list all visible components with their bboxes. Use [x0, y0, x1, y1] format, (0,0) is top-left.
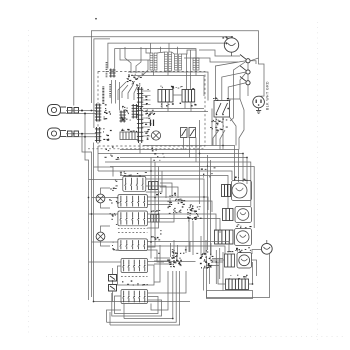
electronic range control ERC dashed enclosure: [98, 72, 205, 147]
transformer T1 secondary winding: [165, 52, 172, 71]
surface element RF: [149, 182, 159, 190]
fuse F1: [68, 108, 79, 114]
wire SW4 to bottom: [147, 242, 190, 253]
surface switch SW2: [118, 195, 147, 208]
wire stack bundle v4: [146, 171, 162, 192]
wire rail to SW2: [92, 197, 118, 199]
wire ERC inner verticals: [111, 80, 113, 104]
wire rail stub: [94, 167, 114, 177]
wire stack bundle v2: [147, 162, 155, 247]
relay K3 contact box: [158, 90, 173, 103]
wire name labels left rail: [106, 62, 112, 97]
wire right bundle down 3: [222, 252, 224, 291]
wire long mid verticals: [207, 155, 209, 250]
terminal junction cluster J2: [0, 0, 1, 1]
wire rail to SW3: [89, 213, 118, 215]
latch motor assembly: [225, 253, 252, 269]
door latch switch contacts: [181, 128, 196, 138]
motor M2 labels: [234, 177, 248, 181]
bottom switch SW5: [121, 259, 148, 273]
wire coil top links: [146, 48, 150, 53]
surface switch SW4: [118, 239, 147, 251]
wire stack v5: [154, 245, 160, 282]
wire mid band 5: [105, 162, 251, 206]
wire DLB drop 1: [215, 117, 217, 146]
door switch S1: [240, 55, 250, 63]
wire bottom run 4: [123, 304, 125, 319]
door switch S2: [240, 66, 250, 74]
wire N top bus: [108, 43, 227, 68]
wire mid band 8: [120, 176, 228, 209]
oven sensor cluster spokes left: [154, 257, 170, 259]
wire coil stub C: [177, 70, 179, 72]
wire latch assembly left: [210, 259, 225, 261]
wire coil to motor area: [184, 58, 238, 62]
wire warming loop: [218, 262, 226, 284]
wire left rail down: [85, 114, 89, 301]
wire TB risers: [160, 183, 172, 198]
motor M2 series element: [222, 185, 231, 197]
switch row left labels: [110, 180, 118, 191]
wire mid band 2: [120, 150, 239, 183]
double line break relay DLB: [214, 101, 230, 118]
wire plug row 2b: [66, 136, 97, 138]
cooling fan motor M2: [232, 181, 252, 201]
wire door switch fanout 2: [222, 72, 246, 100]
wire L1 top bus: [91, 31, 258, 103]
surface switch SW3: [118, 211, 147, 228]
capacitor C1: [151, 120, 154, 127]
power cord terminal L2: [48, 128, 67, 139]
SW5 dashed: [121, 276, 148, 278]
wire right verticals down: [188, 219, 190, 252]
terminal block TB1: [167, 199, 185, 214]
surface element LR: [151, 215, 160, 223]
wire loop erc to right: [200, 72, 208, 101]
wire DLB drop 2: [222, 117, 224, 150]
wire SW6 right: [148, 271, 187, 293]
wire latch assembly right: [252, 260, 257, 276]
motor terminal marks: [222, 36, 228, 38]
fuse F2: [68, 131, 79, 137]
wire bus drop a: [150, 43, 152, 53]
wire mid band 6: [110, 167, 254, 229]
wire nested rect around SW6: [115, 296, 159, 314]
wire switch bundle joiner: [228, 96, 240, 99]
fuse block column: [109, 275, 117, 292]
wire coil bottoms: [128, 71, 200, 73]
wire CN1 lower diagonals: [118, 82, 126, 100]
relay K1 coil: [175, 54, 182, 70]
ERC vertical label text: [102, 87, 104, 104]
wire left of element stack: [199, 120, 201, 204]
indicator light PL1: [96, 194, 105, 203]
svg-text:BLK WHT GRD: BLK WHT GRD: [266, 81, 270, 110]
latch cluster labels: [196, 250, 211, 255]
wire bus drop f: [190, 50, 192, 90]
wire mid band 1: [143, 146, 235, 182]
wire mid band 7: [98, 171, 232, 180]
wire outer loop top right: [196, 76, 204, 97]
mid band wire labels: [105, 147, 120, 160]
relay K4 contact box: [182, 90, 195, 103]
wire door switch fanout 3: [228, 83, 246, 99]
wire door switch right link: [250, 61, 256, 64]
wire SW2b to elements: [147, 201, 212, 212]
connector CN4 strip: [109, 69, 115, 78]
wire DLB slants: [213, 130, 219, 146]
wire nested rect around SW6 outer: [112, 293, 162, 316]
latch switch cluster: [200, 256, 214, 269]
bake series box: [223, 209, 234, 221]
wire door switch down: [247, 63, 249, 70]
wire crossing pair: [190, 242, 229, 253]
door lock motor: [261, 240, 272, 254]
connector P4 labels: [121, 129, 137, 132]
latch motor labels: [227, 249, 251, 253]
switch stack labels: [120, 172, 147, 177]
wire mid band 3: [98, 154, 243, 183]
wire bottom run 3: [110, 271, 180, 325]
wire latch cluster up 2: [205, 240, 207, 256]
wire stack nested loop 4: [147, 250, 164, 262]
wire outer frame left: [97, 146, 99, 171]
wire SW4b: [147, 246, 186, 253]
wire PL2 leads: [101, 226, 111, 232]
wire coil link B-C: [172, 52, 175, 54]
wire coil link C-D: [182, 50, 197, 58]
relay row lower labels: [161, 103, 197, 107]
wire rail to SW1: [89, 179, 123, 181]
wire stack nested loop 3: [147, 213, 174, 222]
wire relay row stubs: [161, 102, 163, 109]
wire door switch fanout 4: [234, 62, 246, 97]
wire erc right drop 1: [211, 109, 213, 146]
wire plug row 1b: [66, 113, 97, 115]
wire latch cluster up 1: [200, 236, 202, 256]
wire bus drop e: [186, 54, 188, 90]
relay K2 coil: [193, 58, 199, 70]
bottom switch SW6: [121, 290, 148, 304]
wire L2 top bus: [74, 37, 232, 106]
terminal block TB2: [187, 204, 199, 220]
wire rail to SW5: [89, 261, 122, 263]
wire bus drop b: [160, 47, 162, 52]
wire mid verticals: [195, 138, 197, 163]
wire coil bottoms 2: [131, 75, 196, 77]
wire third left rail: [94, 39, 110, 128]
latch cluster spokes down: [203, 268, 205, 291]
wire PL1 leads: [101, 188, 111, 194]
wire coil link A-B: [157, 52, 165, 53]
ERC second dashed bottom: [88, 148, 205, 150]
broil series box: [215, 230, 234, 244]
wire bottom run 6: [109, 312, 111, 325]
connector P2 strip: [132, 104, 138, 119]
door switch S3: [240, 77, 250, 85]
wire lock motor left: [252, 250, 262, 255]
wire coil stub D: [195, 70, 197, 76]
element stack labels: [236, 224, 251, 228]
wire left rail 2: [82, 134, 92, 297]
wire name label BLK column: [0, 0, 1, 1]
wire CN1 diagonal leads: [142, 60, 148, 76]
wire bottom right box: [207, 291, 253, 299]
wire door switch down 2: [247, 74, 249, 80]
wire bottom run 1: [124, 271, 173, 319]
connector P4 row: [120, 132, 138, 140]
connector CN1 terminals: [127, 74, 144, 86]
wire bottom run 5: [107, 310, 122, 322]
wire stack bundle v1: [150, 158, 152, 259]
junction cluster dots: [188, 206, 202, 222]
wire bottom riser: [151, 271, 168, 310]
wire bus drop c: [168, 43, 170, 52]
connector CN3 strip: [95, 127, 101, 143]
wire nested rect around SW5: [118, 265, 155, 285]
wire SW2 to elements: [147, 197, 208, 210]
indicator light PL2: [96, 232, 105, 241]
connector P3 strip: [119, 111, 125, 123]
stray dot top: [95, 18, 97, 20]
wire bus branch: [115, 49, 196, 69]
wire coil to switch area: [199, 50, 240, 56]
wire right bundle down 1: [215, 250, 217, 284]
wire lock motor loop: [207, 253, 270, 297]
oven sensor cluster spokes up: [170, 243, 172, 257]
broil element relay: [235, 229, 252, 246]
wire door switch fanout 1: [215, 61, 246, 100]
wire plug row 1: [66, 110, 97, 112]
terminal ticks row: [145, 110, 155, 115]
oven lamp: [151, 131, 160, 140]
wire P1 pin stubs: [142, 91, 151, 136]
connector P1 pin header: [137, 87, 143, 143]
wire bus1 to S1: [250, 58, 258, 61]
wire door switch fanout 5: [240, 73, 246, 96]
receptacle outlet: [253, 96, 265, 108]
connector CN2 labels: [104, 104, 111, 119]
connector P1 pin labels: [145, 89, 152, 140]
stack bundle labels: [151, 230, 162, 240]
wire left rail 3: [94, 143, 191, 302]
wire lamp feed: [143, 108, 204, 110]
connector CN3 labels: [103, 128, 112, 141]
wire SW5 to latch cluster: [148, 261, 196, 263]
ground symbol: [256, 108, 261, 114]
wire rail to SW4: [92, 241, 118, 243]
wire stack nested loop 2: [147, 198, 170, 205]
wire door switch down 3: [247, 85, 249, 96]
wire mid band 4: [120, 158, 247, 185]
relay row labels: [160, 86, 194, 90]
wire SW3b: [147, 219, 220, 234]
wire lamp feed 2: [143, 111, 208, 113]
wire coil stub B: [167, 71, 169, 76]
surface switch SW1: [123, 177, 146, 192]
oven sensor outer labels: [158, 249, 186, 254]
power cord terminal L1: [48, 105, 67, 116]
warming element labels: [229, 275, 248, 280]
wire coil feed 2: [120, 49, 150, 60]
wire bundle to DLB: [230, 96, 234, 121]
latch cluster spokes right: [212, 258, 223, 260]
DLB lower cluster: [210, 119, 228, 131]
dashed gang line: [118, 232, 147, 234]
wire stack bundle v3: [147, 167, 158, 229]
wire coil stub A: [153, 70, 155, 76]
bake element relay: [235, 207, 252, 223]
warming element: [226, 279, 249, 290]
wire fuse leads: [112, 268, 114, 275]
wire receptacle feed: [259, 58, 265, 96]
bottom cluster labels: [122, 280, 148, 285]
node junction column: [81, 110, 86, 138]
wire SW3 to elements: [147, 214, 216, 231]
wire right bundle down 2: [219, 248, 221, 279]
DLB labels: [213, 97, 230, 101]
transformer T1 primary winding: [150, 53, 157, 70]
connector CN1 leads: [122, 85, 128, 98]
wire bus drop d: [177, 47, 179, 54]
convection fan motor: [224, 38, 238, 56]
wire plug row 2: [66, 133, 97, 135]
wire stack nested loop 1: [146, 186, 166, 198]
wire latch cluster up 3: [210, 243, 212, 256]
wire SW1 to elements: [146, 179, 204, 186]
wire left of element stack 2: [203, 186, 205, 254]
left cluster texture: [121, 106, 130, 121]
connector CN2 strip: [95, 104, 101, 122]
wire between relay boxes: [173, 94, 182, 96]
wire bottom run 2: [107, 271, 177, 322]
oven sensor connector cluster: [167, 255, 182, 268]
wire ERC drop: [139, 143, 141, 154]
